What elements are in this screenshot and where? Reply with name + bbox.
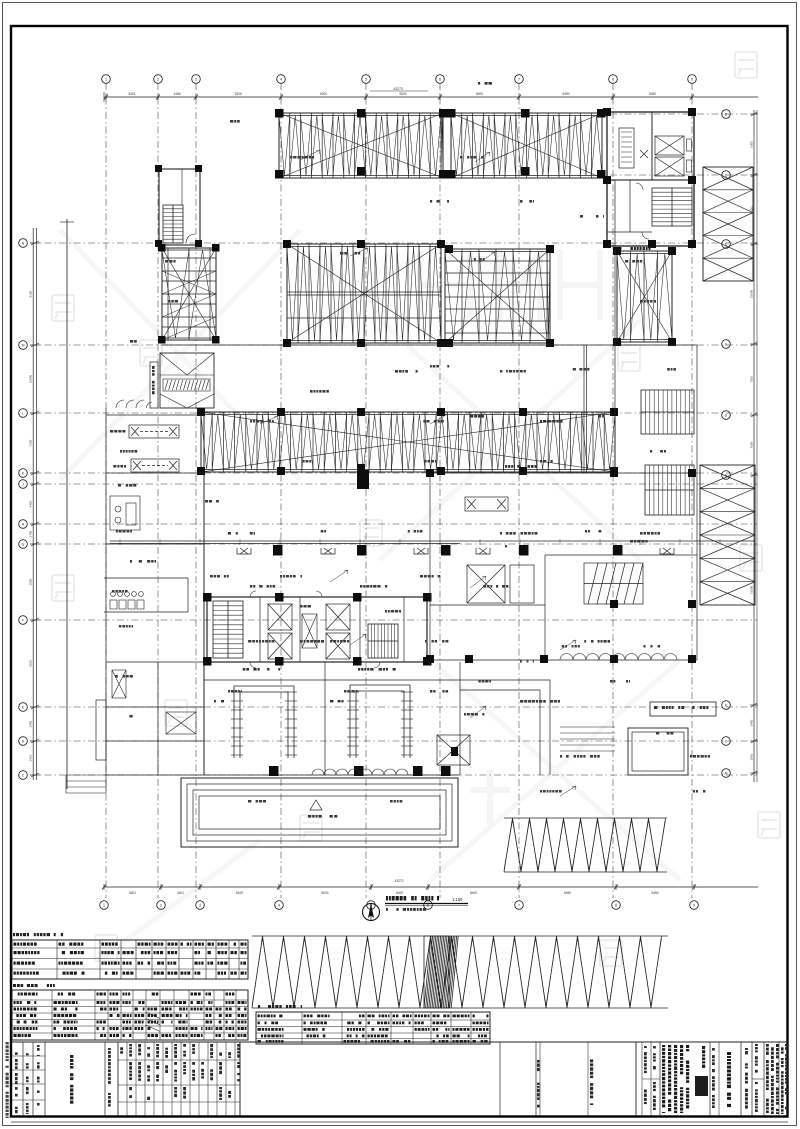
steps SW corner [66, 775, 106, 793]
central core stair W [213, 601, 243, 658]
central core stair E [368, 624, 398, 658]
legend strip left block [12, 1042, 118, 1116]
svg-text:1: 1 [105, 78, 107, 82]
svg-text:8100: 8100 [236, 891, 243, 895]
svg-text:F: F [22, 619, 24, 623]
bottom dimension line [102, 879, 758, 895]
svg-text:4: 4 [278, 904, 280, 908]
top dimension line [104, 82, 758, 102]
svg-text:7200: 7200 [29, 439, 33, 446]
svg-text:3450: 3450 [750, 719, 754, 726]
internal dim ticks [120, 539, 720, 545]
truss block R2a [287, 244, 441, 343]
louver block W [160, 353, 214, 408]
stair block NW [159, 169, 200, 245]
svg-text:5: 5 [365, 78, 367, 82]
duct loop 2 ticks [347, 692, 413, 755]
west exterior wall [106, 408, 460, 775]
svg-text:1:150: 1:150 [452, 897, 463, 902]
svg-text:3: 3 [199, 904, 201, 908]
stair-elevator core NE outline [607, 112, 694, 246]
title block [588, 1042, 779, 1116]
right wing partitions [430, 345, 697, 660]
left dimension lines [29, 228, 41, 780]
roof truss strip T1a [279, 113, 443, 178]
svg-text:7200: 7200 [750, 376, 754, 383]
AHU unit W1 [129, 425, 179, 438]
small court W [96, 700, 106, 760]
columns on duct line [273, 545, 623, 556]
svg-text:7: 7 [518, 78, 520, 82]
entrance canopy nested rectangles [181, 778, 458, 847]
entry door arcs W [116, 400, 152, 408]
svg-text:8: 8 [615, 904, 617, 908]
lower west rooms furniture [112, 670, 196, 734]
svg-text:G: G [22, 543, 25, 547]
table 1 equipment [12, 940, 248, 979]
left grid bubbles [19, 239, 28, 780]
label below core NE [615, 247, 618, 250]
duct main line [110, 541, 755, 544]
AHU unit W2 [131, 459, 179, 472]
svg-text:6300: 6300 [750, 141, 754, 148]
svg-text:L: L [22, 412, 24, 416]
svg-text:5450: 5450 [562, 92, 569, 96]
curtain wall zigzag E lower [700, 465, 755, 605]
svg-text:F: F [725, 343, 727, 347]
plan annotation labels [118, 120, 710, 818]
vertical grid lines [106, 83, 692, 898]
svg-text:16500: 16500 [750, 585, 754, 594]
big column G-4 [357, 470, 369, 489]
truss R2a mid chords [287, 292, 441, 318]
lower rooms partitions [204, 662, 460, 775]
review stamp [695, 1076, 708, 1096]
small pumps W [110, 496, 140, 530]
table 3 materials [256, 1012, 490, 1044]
table 2 text [13, 984, 247, 1037]
steps SE [560, 727, 615, 751]
svg-text:J: J [22, 483, 24, 487]
long truss strip R3 [201, 412, 615, 472]
svg-text:8100: 8100 [29, 290, 33, 297]
legend strip frame [12, 1041, 788, 1043]
svg-text:3: 3 [195, 78, 197, 82]
court double rect [628, 728, 688, 775]
walkway lines SE [460, 680, 550, 775]
supply duct loop 1 [234, 686, 294, 758]
legend columns [118, 1042, 240, 1116]
columns along truss T1 [275, 109, 606, 179]
right wing labels [505, 465, 507, 468]
curtain wall zigzag NE [703, 167, 753, 281]
central small shaft [302, 614, 317, 648]
svg-text:1: 1 [103, 904, 105, 908]
west corridor wall [203, 412, 205, 775]
leader arrows [260, 150, 576, 796]
svg-text:43273: 43273 [393, 87, 403, 91]
extra small labels [110, 156, 705, 803]
horizontal grid lines [30, 243, 757, 775]
duct hangers [237, 548, 674, 554]
columns right wing [426, 469, 696, 663]
left tower block [162, 248, 216, 340]
columns central core [203, 593, 432, 666]
svg-text:43273: 43273 [395, 879, 404, 883]
columns left tower [158, 244, 220, 344]
svg-text:2700: 2700 [29, 530, 33, 537]
svg-text:8400: 8400 [476, 92, 483, 96]
truss block R2b [445, 249, 550, 343]
west wing partitions [104, 473, 204, 775]
svg-text:3403: 3403 [29, 754, 33, 761]
svg-text:6000: 6000 [396, 891, 403, 895]
svg-text:M: M [725, 772, 728, 776]
svg-text:2: 2 [160, 904, 162, 908]
escalator pair [584, 563, 643, 604]
equipment room SE of center [437, 735, 470, 765]
svg-text:2: 2 [157, 78, 159, 82]
right wing exterior wall [162, 180, 697, 660]
svg-text:5401: 5401 [129, 891, 136, 895]
site boundary line left [66, 219, 68, 789]
svg-text:4: 4 [280, 78, 282, 82]
stair SE upper [641, 390, 694, 434]
central core partitions [260, 597, 404, 662]
WC fixtures W [110, 592, 144, 609]
supply duct loop 2 [350, 685, 410, 758]
legend columns text [120, 1044, 240, 1100]
svg-text:6: 6 [439, 78, 441, 82]
left margin vertical note [6, 1042, 9, 1044]
canopy line NW [150, 362, 158, 408]
canopy center mark [310, 800, 322, 810]
north arrow [363, 904, 380, 921]
svg-text:G: G [725, 414, 728, 418]
svg-text:5450: 5450 [651, 891, 658, 895]
core NE inner walls [607, 112, 694, 232]
svg-text:5450: 5450 [649, 92, 656, 96]
bottom outside rule [11, 1121, 788, 1123]
AHU units right wing [465, 497, 534, 603]
columns strip R3 [197, 408, 618, 475]
svg-text:5450: 5450 [564, 891, 571, 895]
svg-text:8400: 8400 [470, 891, 477, 895]
columns stair NW [155, 165, 202, 247]
table 3 text [258, 1005, 489, 1043]
truss block below core [617, 251, 672, 342]
door bumps core [250, 591, 380, 668]
stair SE lower [645, 465, 694, 515]
svg-text:6000: 6000 [321, 891, 328, 895]
svg-text:3000: 3000 [29, 578, 33, 585]
elevator shafts NE [655, 136, 684, 155]
svg-text:7500: 7500 [750, 441, 754, 448]
svg-text:8100: 8100 [235, 92, 242, 96]
central core outline [207, 597, 427, 662]
svg-text:M: M [22, 344, 25, 348]
door arcs NE [636, 183, 649, 239]
zigzag NE frame [703, 167, 753, 281]
svg-text:L: L [725, 740, 727, 744]
svg-text:15000: 15000 [750, 289, 754, 298]
svg-text:4450: 4450 [29, 500, 33, 507]
top grid bubbles [102, 75, 697, 84]
svg-text:5401: 5401 [128, 92, 135, 96]
fence zigzag S [504, 818, 667, 872]
fan coil labels lower [243, 668, 246, 671]
columns lower wall [269, 766, 451, 776]
table 2 slashes [146, 1012, 160, 1032]
right grid bubbles [722, 110, 731, 778]
svg-text:9: 9 [693, 904, 695, 908]
svg-text:3450: 3450 [29, 720, 33, 727]
svg-text:15900: 15900 [29, 374, 33, 383]
svg-text:8: 8 [612, 78, 614, 82]
legend left text [15, 1045, 111, 1114]
roof truss strip T1b [451, 113, 602, 178]
central elevators [268, 604, 292, 630]
svg-text:7: 7 [518, 904, 520, 908]
legend mid divider [500, 1042, 540, 1116]
bottom grid bubbles [100, 901, 699, 910]
columns core NE [603, 108, 696, 248]
equipment NE room [619, 128, 634, 168]
title block texts [590, 1044, 788, 1114]
watermark glyphs [52, 52, 780, 966]
table 2 fans [12, 990, 248, 1040]
svg-text:6000: 6000 [399, 92, 406, 96]
door bumps right wall [560, 654, 677, 660]
svg-text:8100: 8100 [29, 660, 33, 667]
columns row2 [283, 240, 676, 347]
table 1 text [13, 933, 247, 975]
drawing title [385, 896, 468, 911]
svg-text:2991: 2991 [750, 753, 754, 760]
svg-text:9: 9 [691, 78, 693, 82]
duct loop 1 ticks [231, 692, 297, 755]
door bumps lower wall [312, 769, 408, 775]
large zigzag row S [252, 936, 668, 1008]
hatched band in zigzag row [424, 936, 458, 1008]
extra right grid leaders [610, 114, 757, 175]
truss R2b horizontal bands [445, 261, 550, 333]
stair NE [652, 188, 692, 226]
svg-text:3401: 3401 [177, 891, 184, 895]
watermark big letters [420, 250, 600, 825]
terrace band E [650, 702, 716, 716]
right dimension line [750, 110, 759, 782]
svg-text:6000: 6000 [320, 92, 327, 96]
svg-text:3456: 3456 [173, 92, 180, 96]
watermark diagonals [60, 230, 680, 960]
